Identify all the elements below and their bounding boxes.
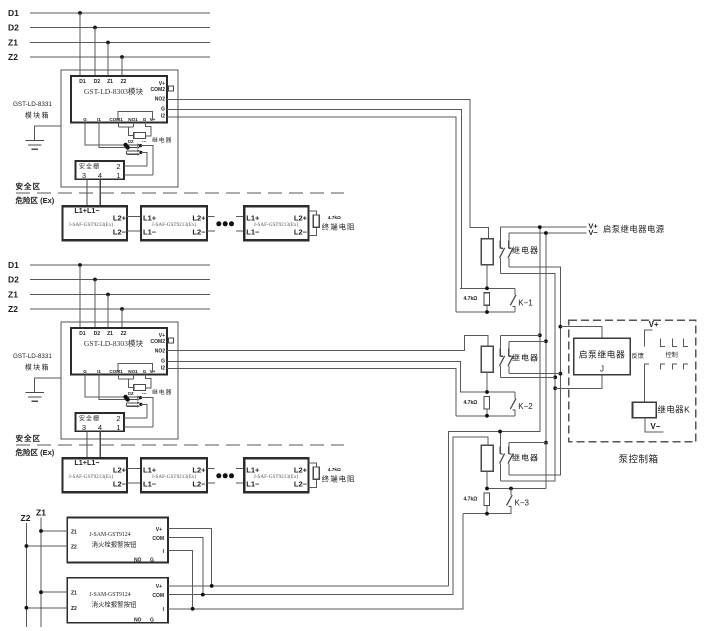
barrier pin2 wire xyxy=(124,417,147,419)
hydrant I row to group3 xyxy=(168,514,463,609)
control contact lower 1 xyxy=(644,364,649,369)
detector J-SAF-GST9213 box C (section 2) xyxy=(244,458,308,492)
module cabinet box GST-LD-8331 (section 1) xyxy=(61,70,178,187)
wire group2 rail-b xyxy=(509,340,546,342)
svg-text:4.7kΩ: 4.7kΩ xyxy=(328,467,341,473)
svg-text:L1−: L1− xyxy=(246,227,260,236)
svg-text:安全区: 安全区 xyxy=(16,433,42,443)
control contact lower 3 xyxy=(673,364,678,369)
svg-text:Z1: Z1 xyxy=(107,331,113,337)
signal bus A (contacts a to J coil) xyxy=(500,273,555,481)
bus line Z1 (section 1) xyxy=(8,38,210,48)
svg-text:NO1: NO1 xyxy=(128,117,138,122)
svg-text:G: G xyxy=(143,369,147,374)
svg-text:Z1: Z1 xyxy=(8,38,18,48)
svg-text:D2: D2 xyxy=(8,23,19,33)
svg-text:D2: D2 xyxy=(8,275,19,285)
series resistor group 1 xyxy=(481,239,493,265)
svg-text:GST-LD-8303模块: GST-LD-8303模块 xyxy=(84,86,144,96)
junction dot Z2 xyxy=(120,307,124,311)
wire A.L2- to B.L1- xyxy=(127,482,141,484)
barrier pin4 wire to detector L1- xyxy=(99,179,101,206)
terminal resistor 4.7k xyxy=(313,467,319,479)
wire J coil bottom lead xyxy=(555,375,602,389)
svg-text:L2+: L2+ xyxy=(192,213,206,222)
bus line D2 (section 1) xyxy=(8,23,210,33)
dot group2 rail-b tap xyxy=(544,339,548,343)
detector A labels xyxy=(69,458,127,489)
svg-text:COM: COM xyxy=(152,536,164,542)
wire stub to C.L1+ xyxy=(236,468,245,470)
svg-text:4.7kΩ: 4.7kΩ xyxy=(464,400,478,406)
svg-text:危险区 (Ex): 危险区 (Ex) xyxy=(16,447,55,457)
detector A labels xyxy=(69,206,127,237)
pump start relay J box xyxy=(574,338,630,375)
COM2 terminal square xyxy=(169,338,174,343)
detector J-SAF-GST9213 box B (section 2) xyxy=(141,458,207,492)
safety barrier 安全栅 (section 2) xyxy=(76,413,125,431)
contact block right stub lower xyxy=(139,403,147,418)
relay contact 2b xyxy=(508,341,513,373)
detector J-SAF-GST9213 box B (section 1) xyxy=(141,206,207,240)
dot V- bus group3 junction xyxy=(544,441,548,445)
svg-text:J-SAF-GST9213(Ex): J-SAF-GST9213(Ex) xyxy=(152,221,197,228)
ellipsis dots between detectors xyxy=(216,473,234,478)
svg-text:模块箱: 模块箱 xyxy=(25,111,50,120)
svg-text:J-SAF-GST9213(Ex): J-SAF-GST9213(Ex) xyxy=(69,221,114,228)
contact block DZ xyxy=(123,391,140,408)
svg-text:L1−: L1− xyxy=(246,479,260,488)
svg-text:L1+: L1+ xyxy=(246,465,260,474)
label 4.7kΩ 终端电阻 xyxy=(322,467,356,484)
wire B.L2+ stub xyxy=(207,216,215,218)
ellipsis dots between detectors xyxy=(216,221,234,226)
wire module1 I2 to group1 bottom rail xyxy=(167,117,456,312)
wire control to relay K xyxy=(643,370,645,403)
wire A.L2- to B.L1- xyxy=(127,230,141,232)
hydrant V+ row to group3 xyxy=(168,585,449,587)
bus line Z2 (section 2) xyxy=(8,304,210,314)
svg-text:V+: V+ xyxy=(156,584,162,590)
svg-text:V+: V+ xyxy=(649,320,659,329)
wire module G to contact block xyxy=(85,123,126,145)
V+ power rail xyxy=(500,226,586,228)
dot group2a tap on bus A xyxy=(553,375,557,379)
svg-text:Z2: Z2 xyxy=(71,606,77,612)
mid rail group 3 xyxy=(487,488,546,490)
svg-text:Z2: Z2 xyxy=(8,304,18,314)
dot V+ bus top xyxy=(538,225,542,229)
svg-text:NO2: NO2 xyxy=(155,97,166,103)
svg-text:终端电阻: 终端电阻 xyxy=(322,223,356,232)
svg-text:J-SAM-GST9124: J-SAM-GST9124 xyxy=(89,592,130,598)
svg-text:V−: V− xyxy=(651,422,661,431)
wire COM1/NO1 to relay coil xyxy=(119,375,134,388)
svg-text:J: J xyxy=(600,365,604,374)
dot V- bus top xyxy=(544,231,548,235)
module top pin labels D1 D2 Z1 Z2 xyxy=(79,331,126,337)
relay contact 1b xyxy=(508,233,513,267)
svg-text:安全栅: 安全栅 xyxy=(79,163,100,171)
wire drop D2 to module xyxy=(94,28,96,77)
module GST-LD-8303 (section 2) xyxy=(71,328,167,375)
svg-text:启泵继电器: 启泵继电器 xyxy=(579,349,626,360)
wire group2 contact-b bottom xyxy=(509,373,561,375)
svg-text:Z2: Z2 xyxy=(121,79,127,85)
module bottom pin labels G I1 COM1 NO1 G V+ xyxy=(83,117,155,122)
wire group3 rail-a left extension xyxy=(449,432,501,587)
svg-text:I1: I1 xyxy=(97,369,101,374)
svg-text:D1: D1 xyxy=(79,331,86,337)
module right pin labels V+ COM2 NO2 G I2 xyxy=(151,333,166,372)
wire module2 G to group2 mid rail xyxy=(167,362,460,393)
ground wire stem xyxy=(34,378,61,392)
svg-text:4.7kΩ: 4.7kΩ xyxy=(464,296,478,302)
wire V- bus to group3 mid rail xyxy=(545,443,547,489)
wire hydrant2 Z2 xyxy=(25,606,68,610)
svg-text:L2−: L2− xyxy=(192,479,206,488)
bus line D1 (section 2) xyxy=(8,260,210,270)
wire group2 contact-a bottom xyxy=(500,376,555,378)
mid rail group 2 xyxy=(460,391,515,393)
control contact upper 2 xyxy=(673,338,678,346)
label 4.7kΩ 终端电阻 xyxy=(322,215,356,232)
detector C labels xyxy=(246,213,307,236)
junction dot Z1 xyxy=(106,293,110,297)
V- power rail xyxy=(509,232,587,234)
svg-text:G: G xyxy=(83,117,87,122)
relay contact 1a xyxy=(500,227,505,273)
svg-text:控制: 控制 xyxy=(666,351,678,359)
relay contact 2a xyxy=(500,335,505,377)
svg-text:COM2: COM2 xyxy=(151,339,166,345)
wire G to relay coil right xyxy=(146,123,152,137)
svg-text:J-SAF-GST9213(Ex): J-SAF-GST9213(Ex) xyxy=(152,473,197,480)
svg-text:G: G xyxy=(150,618,154,624)
svg-text:2: 2 xyxy=(116,162,120,171)
detector J-SAF-GST9213 box A (section 2) xyxy=(63,458,128,492)
svg-text:K−2: K−2 xyxy=(518,402,533,411)
pump control cabinet dashed box xyxy=(569,320,696,442)
svg-text:NO2: NO2 xyxy=(155,349,166,355)
wire module G to contact block xyxy=(85,375,126,397)
label 启泵继电器 J xyxy=(579,349,626,374)
wire J coil top lead xyxy=(560,327,602,339)
svg-text:D1: D1 xyxy=(8,260,19,270)
svg-text:泵控制箱: 泵控制箱 xyxy=(619,454,659,466)
svg-text:终端电阻: 终端电阻 xyxy=(322,475,356,484)
svg-text:I1: I1 xyxy=(97,117,101,122)
dot group3 rail-a contact xyxy=(498,430,502,434)
svg-text:L1+: L1+ xyxy=(143,465,157,474)
svg-text:L2−: L2− xyxy=(192,227,206,236)
svg-text:Z1: Z1 xyxy=(36,508,46,518)
ground wire stem xyxy=(34,126,61,140)
svg-text:Z2: Z2 xyxy=(121,331,127,337)
wire drop D1 to module xyxy=(79,265,81,328)
junction dot resistor/4.7k group 2 xyxy=(485,390,489,394)
svg-text:L2−: L2− xyxy=(294,479,308,488)
label GST-LD-8331 模块箱 xyxy=(13,353,52,372)
label 继电器 (coil) xyxy=(142,136,172,144)
svg-text:G: G xyxy=(143,117,147,122)
wire module2 NO2 to group2 resistor xyxy=(167,335,488,350)
wire drop Z2 to module xyxy=(121,57,123,76)
module bottom pin labels G I1 COM1 NO1 G V+ xyxy=(83,369,155,374)
svg-text:L1−: L1− xyxy=(143,227,157,236)
label V+ / V- power xyxy=(589,222,598,237)
bus line Z2 (section 1) xyxy=(8,52,210,62)
svg-text:继电器: 继电器 xyxy=(152,388,172,396)
internal bracket COM1..V+ xyxy=(118,363,153,372)
svg-text:3: 3 xyxy=(82,423,86,432)
svg-text:L1+: L1+ xyxy=(143,213,157,222)
svg-text:Z1: Z1 xyxy=(107,79,113,85)
svg-text:D1: D1 xyxy=(8,8,19,18)
svg-text:启泵继电器电源: 启泵继电器电源 xyxy=(603,224,665,234)
svg-text:...: ... xyxy=(142,390,147,396)
svg-text:Z1: Z1 xyxy=(71,591,77,597)
hydrant module 2 labels xyxy=(71,584,165,624)
wire resistor to mid rail group 1 xyxy=(486,265,488,289)
svg-text:反馈: 反馈 xyxy=(632,352,644,360)
svg-text:L2+: L2+ xyxy=(192,465,206,474)
barrier pin4 wire to detector L1- xyxy=(99,431,101,458)
svg-text:消火栓报警按钮: 消火栓报警按钮 xyxy=(92,540,137,549)
svg-text:3: 3 xyxy=(82,171,86,180)
svg-text:G: G xyxy=(161,107,165,113)
relay contact 3a xyxy=(500,432,505,482)
zone dashed separator line xyxy=(16,444,344,446)
junction dot D1 xyxy=(78,263,82,267)
terminal resistor 4.7k xyxy=(313,215,319,227)
wire group2 rail-a xyxy=(500,334,540,336)
wire module I1 to contact block xyxy=(99,123,128,148)
svg-text:COM: COM xyxy=(152,593,164,599)
svg-text:继电器: 继电器 xyxy=(152,136,172,144)
module top pin labels D1 D2 Z1 Z2 xyxy=(79,79,126,85)
junction dot 4.7k bottom group 1 xyxy=(485,310,489,314)
barrier pin1 wire xyxy=(124,426,153,428)
junction dot K-3 top xyxy=(509,487,513,491)
dot J coil top tap on bus B xyxy=(559,325,563,329)
bottom rail group 3 xyxy=(463,513,511,515)
ground symbol xyxy=(25,392,44,401)
detector C labels xyxy=(246,465,307,488)
contact block right stub upper xyxy=(139,396,153,427)
svg-text:L1+: L1+ xyxy=(246,213,260,222)
contact block DZ xyxy=(123,139,140,156)
svg-text:消火栓报警按钮: 消火栓报警按钮 xyxy=(92,600,137,609)
4.7k resistor group 1 xyxy=(484,293,490,305)
label GST-LD-8331 模块箱 xyxy=(13,101,52,120)
svg-text:L2+: L2+ xyxy=(294,465,308,474)
svg-text:L2−: L2− xyxy=(294,227,308,236)
wire B.L2- stub xyxy=(207,482,215,484)
internal bracket COM1..V+ xyxy=(118,111,153,120)
mid rail group 1 xyxy=(460,287,515,289)
safety barrier 安全栅 (section 1) xyxy=(76,161,125,179)
wire resistor to mid rail group 3 xyxy=(486,471,488,488)
dot group2b tap on bus B xyxy=(559,372,563,376)
wire resistor to mid rail group 2 xyxy=(486,372,488,392)
junction dot Z1 xyxy=(106,41,110,45)
svg-text:继电器: 继电器 xyxy=(512,245,539,255)
wire drop D2 to module xyxy=(94,280,96,329)
wire stub to C.L1- xyxy=(236,482,245,484)
svg-text:K−1: K−1 xyxy=(518,298,533,307)
svg-text:L2+: L2+ xyxy=(294,213,308,222)
svg-text:GST-LD-8331: GST-LD-8331 xyxy=(13,353,52,360)
svg-text:4: 4 xyxy=(98,171,102,180)
svg-text:L2+: L2+ xyxy=(113,465,127,474)
svg-text:安全区: 安全区 xyxy=(16,181,42,191)
switch K-2 xyxy=(510,392,516,416)
svg-text:G: G xyxy=(150,558,154,564)
svg-text:J-SAF-GST9213(Ex): J-SAF-GST9213(Ex) xyxy=(69,473,114,480)
svg-text:K−3: K−3 xyxy=(515,499,530,508)
module right pin labels V+ COM2 NO2 G I2 xyxy=(151,81,166,120)
svg-text:COM1: COM1 xyxy=(109,369,123,374)
wire 4.7k to bottom rail group 1 xyxy=(486,305,488,312)
dot J coil bottom tap on bus A xyxy=(553,386,557,390)
wire module2 I2 to group2 bottom rail xyxy=(167,369,456,416)
junction dot Z2 xyxy=(120,55,124,59)
svg-text:危险区 (Ex): 危险区 (Ex) xyxy=(16,195,55,205)
svg-text:DZ: DZ xyxy=(128,391,134,396)
svg-text:V−: V− xyxy=(589,228,598,237)
dot hydrant COM join xyxy=(201,593,205,597)
svg-text:L1+L1−: L1+L1− xyxy=(74,458,99,467)
svg-text:安全栅: 安全栅 xyxy=(79,415,100,423)
svg-text:NO: NO xyxy=(134,558,142,564)
control contact upper 1 xyxy=(661,338,666,346)
junction dot 4.7k bottom group 3 xyxy=(485,512,489,516)
relay coil xyxy=(134,384,146,390)
barrier pin3 wire to detector L1+ xyxy=(86,179,88,206)
svg-text:COM2: COM2 xyxy=(151,87,166,93)
hydrant button module J-SAM-GST9124 #2 xyxy=(67,578,168,623)
wire hydrant1 COM down xyxy=(168,538,203,595)
svg-text:GST-LD-8303模块: GST-LD-8303模块 xyxy=(84,338,144,348)
V- bus vertical xyxy=(545,233,547,443)
bottom rail group 1 xyxy=(456,311,515,313)
svg-text:GST-LD-8331: GST-LD-8331 xyxy=(13,101,52,108)
wire hydrant1 I down xyxy=(168,551,193,609)
wire A.L2+ to B.L1+ xyxy=(127,468,141,470)
wire hydrant1 Z2 xyxy=(25,544,68,548)
svg-text:4: 4 xyxy=(98,423,102,432)
wire group3 rail-b xyxy=(509,442,546,444)
svg-text:4.7kΩ: 4.7kΩ xyxy=(464,496,478,502)
hydrant button module J-SAM-GST9124 #1 xyxy=(67,518,168,563)
ground symbol xyxy=(25,140,44,149)
relay coil xyxy=(134,132,146,138)
svg-text:Z2: Z2 xyxy=(8,52,18,62)
svg-text:1: 1 xyxy=(116,171,120,180)
contact block right stub lower xyxy=(139,151,147,166)
wire drop Z2 to module xyxy=(121,309,123,328)
relay K box xyxy=(633,402,657,418)
4.7k resistor group 3 xyxy=(484,493,490,505)
barrier pin1 wire xyxy=(124,174,153,176)
junction dot D1 xyxy=(78,11,82,15)
barrier pin3 wire to detector L1+ xyxy=(86,431,88,458)
wire stub to C.L1- xyxy=(236,230,245,232)
zone dashed separator line xyxy=(16,192,344,194)
wire hydrant1 Z1 xyxy=(39,529,67,533)
svg-text:继电器: 继电器 xyxy=(512,453,539,463)
control contact upper 3 xyxy=(683,338,688,346)
wire C.L2- to terminal resistor xyxy=(308,479,316,487)
module cabinet box GST-LD-8331 (section 2) xyxy=(61,322,178,439)
wire A.L2+ to B.L1+ xyxy=(127,216,141,218)
bus line D2 (section 2) xyxy=(8,275,210,285)
svg-text:...: ... xyxy=(142,138,147,144)
svg-text:继电器K: 继电器K xyxy=(658,405,691,415)
wire module1 G to group1 mid rail xyxy=(167,109,462,288)
wire module I1 to contact block xyxy=(99,375,128,400)
barrier pin2 wire xyxy=(124,165,147,167)
hydrant module 1 labels xyxy=(71,527,165,564)
wire 4.7k to bottom rail group 3 xyxy=(486,505,488,513)
wire C.L2+ to terminal resistor xyxy=(308,211,316,215)
wire B.L2- stub xyxy=(207,230,215,232)
Z1 bus vertical xyxy=(40,518,42,628)
svg-text:G: G xyxy=(83,369,87,374)
wire relay K to V- terminal xyxy=(645,418,664,432)
svg-text:V+: V+ xyxy=(156,527,162,533)
wire drop Z1 to module xyxy=(107,43,109,77)
svg-text:NO1: NO1 xyxy=(128,369,138,374)
hydrant COM row to group3 xyxy=(168,437,488,595)
svg-text:D2: D2 xyxy=(94,331,101,337)
svg-text:2: 2 xyxy=(116,414,120,423)
svg-text:Z1: Z1 xyxy=(8,290,18,300)
series resistor group 2 xyxy=(481,346,493,372)
module GST-LD-8303 (section 1) xyxy=(71,76,167,123)
svg-text:1: 1 xyxy=(116,423,120,432)
svg-text:I2: I2 xyxy=(161,366,165,372)
detector B labels xyxy=(143,213,206,236)
svg-text:D1: D1 xyxy=(79,79,86,85)
V+ terminal contact upper xyxy=(644,330,652,347)
switch K-1 xyxy=(510,288,516,312)
contact block right stub upper xyxy=(139,144,153,175)
switch K-3 xyxy=(507,489,513,514)
COM2 terminal square xyxy=(169,86,174,91)
4.7k resistor group 2 xyxy=(484,397,490,409)
label 继电器 (coil) xyxy=(142,388,172,396)
detector J-SAF-GST9213 box A (section 1) xyxy=(63,206,128,240)
wire hydrant1 V+ down xyxy=(168,529,212,586)
junction dot resistor/4.7k group 1 xyxy=(485,286,489,290)
bus line D1 (section 1) xyxy=(8,8,210,18)
svg-text:J-SAF-GST9213(Ex): J-SAF-GST9213(Ex) xyxy=(254,473,299,480)
control contact lower 4 xyxy=(683,364,688,369)
svg-text:L2+: L2+ xyxy=(113,213,127,222)
Z2 bus vertical xyxy=(25,523,27,627)
wire COM1/NO1 to relay coil xyxy=(119,123,134,136)
svg-text:NO: NO xyxy=(134,618,142,624)
svg-text:继电器: 继电器 xyxy=(512,352,539,362)
bus line Z1 (section 2) xyxy=(8,290,210,300)
detector J-SAF-GST9213 box C (section 1) xyxy=(244,206,308,240)
svg-text:D2: D2 xyxy=(94,79,101,85)
wire stub to C.L1+ xyxy=(236,216,245,218)
wire hydrant2 Z1 xyxy=(39,590,67,594)
svg-text:Z2: Z2 xyxy=(71,544,77,550)
